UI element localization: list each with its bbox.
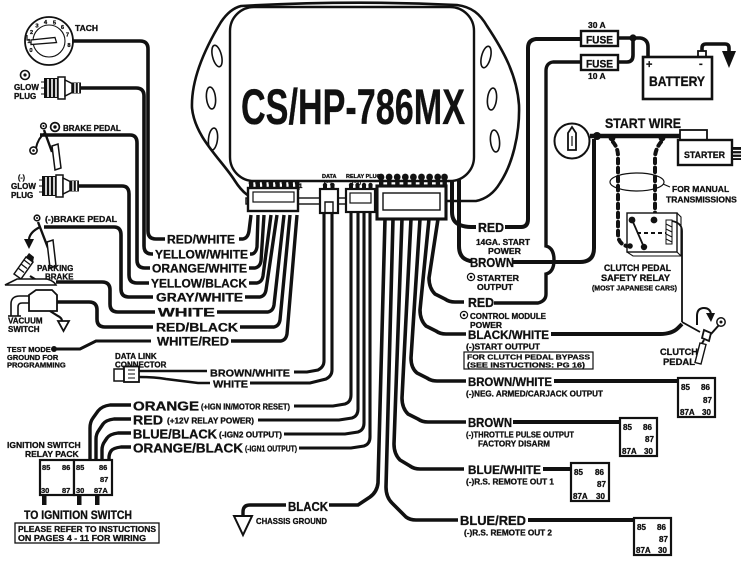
svg-text:30: 30: [702, 408, 711, 417]
svg-text:PROGRAMMING: PROGRAMMING: [7, 361, 66, 370]
svg-text:86: 86: [701, 383, 710, 392]
svg-text:85: 85: [623, 423, 632, 432]
svg-text:STARTER: STARTER: [477, 274, 519, 283]
fuse F2: [581, 55, 618, 70]
vacuum switch icon: [8, 290, 57, 316]
wire WHITE to J1 pin6: [217, 215, 284, 312]
starter motor M1: [678, 130, 741, 165]
vent slot left 2: [205, 87, 216, 110]
clutch pedal safety relay K5: [627, 213, 681, 256]
svg-text:7: 7: [66, 33, 69, 39]
svg-text:(SEE INSTUCTIONS: PG 16): (SEE INSTUCTIONS: PG 16): [467, 361, 586, 370]
svg-text:(-)BRAKE PEDAL: (-)BRAKE PEDAL: [45, 215, 117, 224]
svg-text:YELLOW/BLACK: YELLOW/BLACK: [151, 277, 247, 291]
relay pack output stubs: [42, 495, 47, 505]
svg-text:BROWN: BROWN: [470, 255, 514, 270]
wire BLACK/WHITE to clutch pedal: [551, 324, 682, 334]
svg-text:87A: 87A: [573, 492, 588, 501]
brake pedal negative symbol: [34, 215, 40, 221]
svg-text:85: 85: [681, 383, 690, 392]
svg-text:CONNECTOR: CONNECTOR: [115, 361, 167, 370]
svg-text:YELLOW/WHITE: YELLOW/WHITE: [155, 248, 248, 262]
wire relay plug to BLUE/BLACK: [284, 212, 364, 434]
wire RED 14ga to fuse 30A: [505, 39, 581, 227]
svg-text:BLUE/BLACK: BLUE/BLACK: [133, 428, 217, 442]
glow plug positive connector icon: [41, 77, 81, 99]
manual transmissions callout ellipse: [610, 173, 664, 191]
wire ORANGE to relay pack: [90, 405, 131, 459]
parking brake icon: [5, 253, 56, 285]
wire RED to relay pack: [96, 419, 131, 459]
wire BROWN throttle to relay K2: [513, 420, 620, 424]
relay K2: [620, 418, 657, 456]
wire GRAY/WHITE to J1 pin5: [245, 215, 277, 297]
svg-text:86: 86: [657, 523, 666, 532]
svg-text:(-IGN1 OUTPUT): (-IGN1 OUTPUT): [245, 445, 297, 454]
wire J2 to RED 14ga: [452, 180, 476, 227]
svg-text:RED: RED: [478, 220, 504, 235]
wire relay plug to ORANGE: [294, 212, 351, 406]
wire BLUE/RED to relay K4: [528, 518, 634, 522]
wire RED/BLACK to J1 pin7: [240, 215, 290, 327]
node dashed tap right: [659, 135, 666, 142]
wire data pin1 to BROWN/WHITE: [294, 213, 324, 372]
wire J2 to BLUE/WHITE: [394, 219, 464, 469]
svg-text:85: 85: [42, 463, 50, 472]
vent slot right 2: [486, 88, 497, 111]
svg-text:87: 87: [100, 475, 108, 484]
battery B1: [643, 51, 712, 99]
wire BROWN/WHITE to relay K1: [554, 379, 678, 383]
wire vacuum switch ground arm: [50, 311, 62, 321]
svg-text:30: 30: [596, 492, 605, 501]
svg-text:GLOW: GLOW: [11, 182, 36, 191]
svg-text:BRAKE: BRAKE: [45, 273, 74, 282]
svg-text:FACTORY DISARM: FACTORY DISARM: [478, 440, 550, 449]
svg-text:PLUG: PLUG: [14, 92, 36, 101]
svg-text:(-): (-): [18, 175, 25, 182]
svg-text:ORANGE: ORANGE: [133, 400, 199, 414]
wire J2 to BLACK/WHITE: [420, 219, 466, 334]
wire BLACK to chassis ground: [243, 505, 286, 516]
svg-text:0: 0: [29, 48, 32, 54]
wire J2 to BROWN starter: [459, 180, 472, 261]
svg-text:87: 87: [62, 486, 70, 495]
svg-text:CHASSIS GROUND: CHASSIS GROUND: [256, 516, 327, 526]
wire fuse F1 to battery: [618, 38, 648, 57]
svg-text:87: 87: [645, 435, 654, 444]
wire BLUE/BLACK to relay pack: [102, 433, 131, 459]
wire brake pedal negative to GRAY/WHITE: [44, 227, 153, 297]
svg-text:87: 87: [597, 480, 606, 489]
connector J1 body: [248, 188, 298, 211]
svg-text:30 A: 30 A: [588, 20, 606, 30]
svg-text:87A: 87A: [680, 408, 695, 417]
connector J1 pins: [249, 181, 300, 190]
svg-text:STARTER: STARTER: [684, 150, 725, 161]
wire parking brake to WHITE: [56, 282, 155, 312]
wire J2 to RED control module: [429, 219, 464, 302]
wire ORANGE/WHITE to J1 pin3: [249, 215, 264, 268]
svg-text:RELAY PACK: RELAY PACK: [25, 449, 80, 459]
svg-text:CONTROL MODULE: CONTROL MODULE: [470, 312, 547, 321]
svg-text:30: 30: [658, 546, 667, 555]
wire fuse F2 to RED control module with crossover hop: [494, 62, 581, 303]
wire WHITE/RED to J1 pin8: [231, 215, 297, 341]
wire dashed manual transmission left: [613, 142, 629, 247]
svg-text:BATTERY: BATTERY: [649, 74, 705, 89]
svg-text:FOR MANUAL: FOR MANUAL: [672, 184, 729, 194]
svg-text:86: 86: [62, 463, 70, 472]
svg-text:86: 86: [643, 423, 652, 432]
wire battery negative to ground: [702, 44, 729, 52]
wire test mode to WHITE/RED: [56, 341, 151, 349]
wire data link to WHITE: [139, 377, 210, 383]
glow plug positive symbol: [21, 71, 30, 80]
wire J2 to BROWN/WHITE armed: [411, 219, 466, 381]
svg-text:30: 30: [76, 486, 84, 495]
connector J2 pins: [378, 174, 448, 187]
ground symbol chassis: [234, 516, 252, 535]
svg-text:ORANGE/WHITE: ORANGE/WHITE: [152, 262, 247, 276]
svg-text:BROWN: BROWN: [468, 415, 512, 430]
svg-text:BLACK/WHITE: BLACK/WHITE: [468, 328, 549, 342]
svg-text:GLOW: GLOW: [14, 83, 39, 92]
svg-text:10 A: 10 A: [588, 71, 606, 81]
ground arrow vacuum switch: [58, 321, 69, 331]
fuse F1: [581, 31, 618, 46]
wire J2 to BLACK chassis ground: [329, 219, 385, 505]
svg-text:(-)START OUTPUT: (-)START OUTPUT: [466, 343, 540, 352]
svg-text:87: 87: [659, 535, 668, 544]
wiring note box: [15, 523, 159, 543]
wire dashed manual transmission right: [655, 142, 661, 217]
wire relay K5 to clutch pedal junction: [672, 221, 682, 322]
relay K1: [678, 378, 715, 417]
wire data pin2 to WHITE: [250, 213, 332, 383]
svg-text:86: 86: [99, 463, 107, 472]
ground arrow battery: [722, 51, 736, 68]
data plug body: [320, 189, 338, 213]
svg-text:(-)NEG. ARMED/CARJACK OUTPUT: (-)NEG. ARMED/CARJACK OUTPUT: [466, 390, 603, 399]
svg-text:30: 30: [644, 447, 653, 456]
svg-text:PEDAL: PEDAL: [663, 357, 695, 368]
svg-text:(-IGN2 OUTPUT): (-IGN2 OUTPUT): [219, 431, 282, 440]
svg-text:ORANGE/BLACK: ORANGE/BLACK: [133, 442, 243, 456]
wire YELLOW/WHITE to J1 pin2: [250, 215, 258, 254]
node test mode dot: [51, 346, 57, 352]
svg-text:FUSE: FUSE: [586, 35, 613, 47]
svg-text:RED: RED: [468, 295, 494, 310]
svg-text:PLEASE REFER TO INSTUCTIONS: PLEASE REFER TO INSTUCTIONS: [18, 525, 157, 534]
svg-text:ON PAGES 4 - 11 FOR WIRING: ON PAGES 4 - 11 FOR WIRING: [18, 534, 146, 543]
svg-text:WHITE: WHITE: [213, 379, 248, 391]
svg-text:BLUE/WHITE: BLUE/WHITE: [468, 463, 541, 477]
svg-text:START WIRE: START WIRE: [605, 116, 681, 131]
vent slot left 1: [210, 44, 224, 68]
wire RED/WHITE to connector J1 pin1: [239, 215, 251, 239]
svg-text:TACH: TACH: [75, 24, 98, 33]
node dashed tap left: [609, 135, 616, 142]
wire start wire run: [590, 134, 680, 139]
clutch pedal icon: [695, 308, 725, 364]
svg-text:+: +: [646, 59, 652, 71]
ignition key symbol: [555, 124, 590, 159]
svg-text:GRAY/WHITE: GRAY/WHITE: [156, 291, 243, 305]
svg-text:SWITCH: SWITCH: [8, 325, 40, 334]
svg-text:BLUE/RED: BLUE/RED: [460, 513, 526, 528]
svg-text:85: 85: [574, 468, 583, 477]
svg-text:85: 85: [637, 523, 646, 532]
svg-text:(-)R.S. REMOTE OUT 1: (-)R.S. REMOTE OUT 1: [466, 478, 555, 487]
brake pedal positive icon: [30, 130, 61, 170]
wire glow plug negative to YELLOW/BLACK: [79, 186, 149, 283]
wire J2 to BROWN throttle: [402, 219, 466, 422]
wire vacuum switch to RED/BLACK: [57, 302, 153, 327]
svg-text:(+12V RELAY POWER): (+12V RELAY POWER): [167, 417, 254, 426]
wire relay plug to RED ign: [258, 212, 358, 420]
svg-text:BRAKE PEDAL: BRAKE PEDAL: [63, 124, 121, 133]
vent slot right 1: [479, 45, 493, 69]
svg-text:SAFETY RELAY: SAFETY RELAY: [601, 273, 671, 284]
svg-text:CS/HP-786MX: CS/HP-786MX: [241, 79, 465, 135]
svg-text:86: 86: [595, 468, 604, 477]
wire BROWN starter output to start wire junction: [513, 139, 594, 262]
node start wire junction: [593, 132, 601, 140]
svg-text:BLACK: BLACK: [288, 500, 328, 514]
svg-text:(-)R.S. REMOTE OUT 2: (-)R.S. REMOTE OUT 2: [464, 529, 553, 538]
svg-text:TO IGNITION SWITCH: TO IGNITION SWITCH: [24, 510, 132, 522]
brake pedal negative icon: [24, 222, 56, 268]
svg-text:87A: 87A: [94, 486, 108, 495]
wire tach to RED/WHITE: [72, 41, 165, 239]
clutch pedal bypass note box: [464, 352, 593, 369]
svg-text:87A: 87A: [636, 546, 651, 555]
connector J2 body: [377, 186, 446, 219]
svg-text:-: -: [699, 58, 703, 70]
wire glow plug positive to YELLOW/WHITE: [81, 88, 153, 254]
svg-text:30: 30: [41, 486, 49, 495]
svg-text:FUSE: FUSE: [586, 59, 613, 71]
control module U1 body: [192, 3, 519, 201]
svg-text:RED: RED: [133, 414, 163, 428]
relay plug pins: [349, 183, 373, 190]
svg-text:85: 85: [76, 463, 84, 472]
wire data link to BROWN/WHITE: [139, 370, 207, 373]
wire ORANGE/BLACK to relay pack: [109, 447, 131, 460]
svg-text:87A: 87A: [622, 447, 637, 456]
wire brake pedal positive to ORANGE/WHITE: [40, 135, 150, 268]
relay plug body: [346, 189, 375, 212]
data plug pins: [323, 183, 335, 190]
glow plug negative connector icon: [39, 175, 79, 197]
wire fuse F2 riser to junction: [618, 40, 633, 62]
wire J2 to BLUE/RED: [386, 219, 458, 520]
svg-text:(+IGN IN/MOTOR RESET): (+IGN IN/MOTOR RESET): [201, 403, 290, 412]
svg-text:(-)THROTTLE PULSE OUTPUT: (-)THROTTLE PULSE OUTPUT: [466, 431, 574, 440]
svg-text:TRANSMISSIONS: TRANSMISSIONS: [666, 195, 737, 205]
svg-text:2: 2: [30, 30, 33, 36]
svg-text:PLUG: PLUG: [11, 191, 33, 200]
wire relay plug to ORANGE/BLACK: [299, 212, 370, 448]
svg-text:87: 87: [703, 396, 712, 405]
tachometer gauge: [25, 17, 73, 65]
svg-text:OUTPUT: OUTPUT: [477, 283, 513, 292]
svg-text:RED/BLACK: RED/BLACK: [156, 321, 238, 335]
ignition relay pack K6: [40, 460, 112, 495]
svg-text:(MOST JAPANESE CARS): (MOST JAPANESE CARS): [592, 286, 677, 293]
svg-text:RED/WHITE: RED/WHITE: [167, 233, 235, 247]
U1 bottom rim: [246, 198, 445, 204]
data link connector icon: [114, 367, 139, 383]
vent slot right 3: [489, 130, 500, 153]
wire YELLOW/BLACK to J1 pin4: [249, 215, 271, 283]
brake pedal positive symbols: [41, 123, 47, 129]
svg-text:14GA. START: 14GA. START: [476, 238, 530, 247]
wire junction to clutch pedal switch: [682, 322, 700, 332]
node junction fuse outputs: [629, 34, 636, 41]
vent slot left 3: [207, 128, 218, 151]
relay K3: [571, 463, 609, 501]
relay K4: [634, 518, 671, 555]
svg-text:BROWN/WHITE: BROWN/WHITE: [468, 375, 552, 389]
svg-text:WHITE/RED: WHITE/RED: [157, 335, 229, 349]
wire BLUE/WHITE to relay K3: [543, 467, 571, 471]
svg-text:WHITE: WHITE: [158, 306, 215, 320]
